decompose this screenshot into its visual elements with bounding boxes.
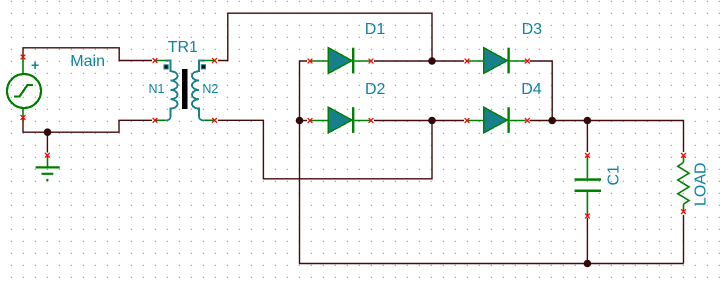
pin mark D2 cathode: [369, 118, 374, 123]
wire D2 cathode to D4 anode: [374, 120, 464, 122]
node C1 bottom tap: [584, 260, 592, 268]
svg-text:N2: N2: [202, 82, 218, 96]
wire negative bus: D1 anode down left side to bottom rail: [300, 61, 684, 264]
pin mark D4 cathode: [525, 118, 530, 123]
pin mark D1 cathode: [369, 59, 374, 64]
N1 primary winding: [156, 61, 165, 121]
wire N2 bottom detour to D2 cathode node: [218, 120, 432, 179]
svg-text:C1: C1: [606, 165, 623, 186]
pin mark C1 bottom: [585, 214, 590, 219]
pin mark D2 anode: [308, 118, 313, 123]
pin mark TR1 N1 bottom: [153, 118, 158, 123]
transformer TR1: [156, 61, 214, 121]
svg-text:TR1: TR1: [168, 39, 198, 56]
pin mark D1 anode: [308, 59, 313, 64]
pin mark LOAD bottom: [681, 209, 686, 214]
svg-text:D4: D4: [521, 81, 542, 98]
svg-text:+: +: [31, 57, 39, 73]
core: [182, 69, 188, 109]
pin mark D3 cathode: [525, 59, 530, 64]
pin mark TR1 N2 top: [212, 58, 217, 63]
node D2 cathode / D4 anode: [428, 117, 436, 125]
wire D2 anode stub: [300, 120, 308, 122]
AC source V1 Main: [7, 58, 41, 118]
svg-text:Main: Main: [70, 53, 105, 70]
pin mark D3 anode: [465, 59, 470, 64]
pin mark D4 anode: [465, 118, 470, 123]
N2 secondary winding: [205, 61, 214, 121]
diode D4: [468, 107, 526, 133]
svg-text:N1: N1: [149, 82, 165, 96]
wire LOAD bottom drop: [683, 215, 685, 264]
node D2 anode: [296, 117, 304, 125]
pin mark C1 top: [585, 153, 590, 158]
wire C1 top drop: [586, 121, 588, 153]
wire ground stem: [46, 132, 48, 152]
wire C1 bottom drop: [586, 218, 588, 264]
wire source bottom to transformer N1 bottom: [23, 118, 152, 132]
svg-text:D2: D2: [365, 81, 386, 98]
diode D1: [311, 48, 370, 74]
diode D2: [311, 107, 370, 133]
wire source top to transformer N1 top: [23, 48, 152, 61]
resistor LOAD: [678, 156, 689, 211]
pin mark TR1 N2 bottom: [212, 118, 217, 123]
wire D1 cathode to node: [374, 60, 464, 62]
diode D3: [468, 48, 526, 74]
capacitor C1: [575, 156, 602, 215]
wire D4 cathode to output rail: [530, 121, 684, 153]
pin mark TR1 N1 top: [153, 58, 158, 63]
pin mark source - terminal: [21, 115, 26, 120]
svg-text:LOAD: LOAD: [692, 162, 709, 206]
svg-text:D3: D3: [522, 21, 543, 38]
pin mark ground: [45, 153, 50, 158]
node ground junction: [44, 128, 52, 136]
node C1 top tap: [584, 117, 592, 125]
wire D3 cathode down to output rail: [530, 61, 553, 121]
phase dot N2: [201, 64, 206, 69]
ground: [36, 155, 60, 180]
node D3/D4 cathode join: [548, 117, 556, 125]
phase dot N1: [164, 64, 169, 69]
pin mark source + terminal: [21, 55, 26, 60]
wire N2 top to top loop to D1 cathode node: [218, 13, 432, 60]
pin mark LOAD top: [681, 153, 686, 158]
svg-text:D1: D1: [365, 21, 386, 38]
node D1 cathode / D3 anode: [428, 57, 436, 65]
